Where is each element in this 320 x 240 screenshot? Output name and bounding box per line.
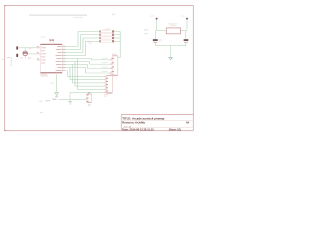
svg-text:Revision: ArJoMa: Revision: ArJoMa — [122, 120, 145, 124]
svg-text:Date: 2014-06-13 20:11:15: Date: 2014-06-13 20:11:15 — [122, 128, 154, 132]
svg-text:A4: A4 — [186, 120, 190, 124]
svg-text:(Sheet: 1/1): (Sheet: 1/1) — [169, 129, 182, 132]
svg-text:TITLE: Arcade joystick pinmap: TITLE: Arcade joystick pinmap — [122, 117, 164, 121]
